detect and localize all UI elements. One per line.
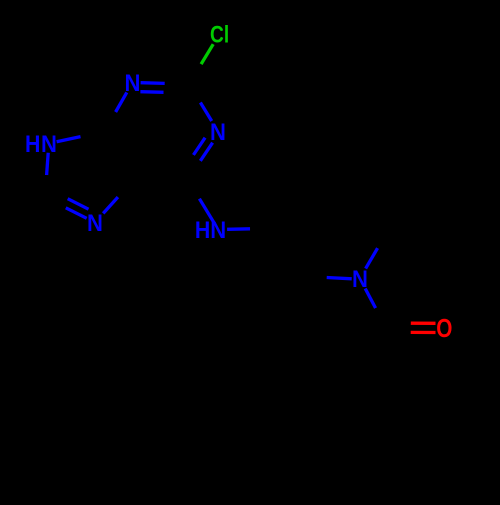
wire C(=O)-CH3 bond bbox=[359, 328, 386, 374]
svg-text:N: N bbox=[210, 216, 226, 243]
svg-text:N: N bbox=[210, 118, 226, 145]
wire N1=C2 double bond bbox=[140, 83, 189, 93]
wire C6-N7 bond bbox=[57, 132, 105, 142]
wire CH2-Nam bond bbox=[302, 276, 352, 279]
wire C6-N1 bond bbox=[104, 92, 127, 131]
svg-text:Cl: Cl bbox=[210, 20, 229, 48]
wire CH2-CH2 bond bbox=[273, 228, 302, 275]
svg-text:N: N bbox=[41, 130, 57, 157]
svg-text:H: H bbox=[195, 216, 210, 244]
wire NH-CH2 bond bbox=[227, 228, 273, 229]
wire Nam-C(=O) bond bbox=[365, 289, 386, 328]
wire N7-C8 bond bbox=[45, 153, 48, 198]
wire C5=C6 double bond bbox=[104, 129, 139, 181]
wire C4-C5 bond bbox=[133, 178, 187, 181]
wire C=O double bond bbox=[386, 323, 436, 332]
wire C4-NH bond bbox=[187, 178, 215, 224]
wire C2-N3 bond bbox=[189, 84, 212, 121]
wire C8=N9 double bond bbox=[45, 187, 89, 218]
svg-text:O: O bbox=[436, 314, 452, 343]
svg-text:N: N bbox=[87, 209, 103, 236]
wire Nam-CH3 bond bbox=[366, 228, 390, 269]
svg-text:N: N bbox=[125, 69, 141, 96]
wire C2-Cl bond bbox=[189, 44, 213, 84]
wire N3=C4 double bond bbox=[182, 138, 213, 179]
svg-text:H: H bbox=[25, 130, 40, 158]
wire N9-C5 bond bbox=[103, 181, 133, 214]
svg-text:N: N bbox=[352, 265, 368, 292]
